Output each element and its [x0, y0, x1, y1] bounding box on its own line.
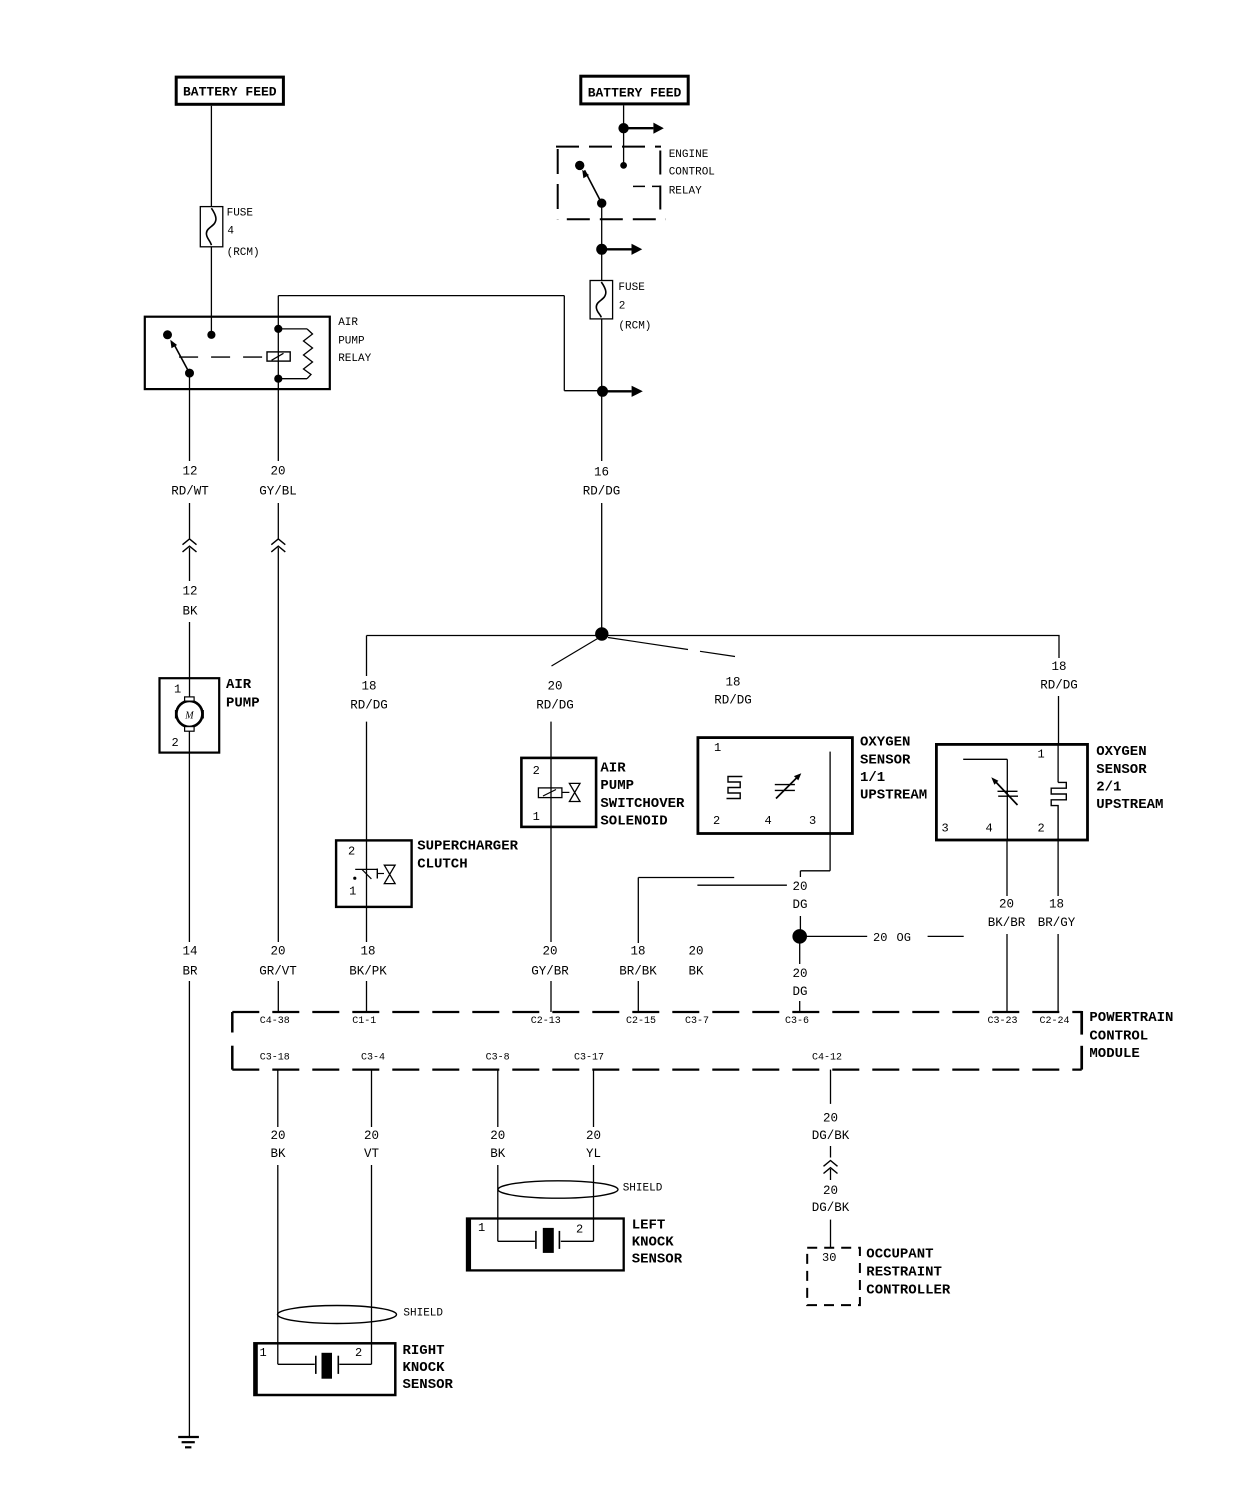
svg-text:RD/DG: RD/DG: [1040, 678, 1078, 692]
svg-text:2: 2: [172, 736, 179, 750]
svg-text:OCCUPANT: OCCUPANT: [866, 1247, 933, 1263]
svg-text:BK: BK: [490, 1147, 506, 1161]
svg-text:C3-23: C3-23: [987, 1016, 1017, 1027]
svg-text:1: 1: [174, 682, 181, 696]
svg-text:2: 2: [355, 1346, 362, 1360]
svg-text:SENSOR: SENSOR: [632, 1251, 683, 1267]
svg-text:20: 20: [823, 1184, 838, 1198]
svg-text:20: 20: [999, 897, 1014, 911]
svg-text:20: 20: [792, 880, 807, 894]
svg-text:20: 20: [270, 944, 285, 958]
svg-text:C3-18: C3-18: [260, 1053, 290, 1064]
svg-text:1: 1: [260, 1346, 267, 1360]
svg-text:SHIELD: SHIELD: [403, 1307, 443, 1319]
svg-text:C1-1: C1-1: [352, 1016, 376, 1027]
svg-text:18: 18: [361, 679, 376, 693]
svg-text:SOLENOID: SOLENOID: [600, 814, 667, 830]
svg-text:18: 18: [630, 944, 645, 958]
svg-text:20: 20: [270, 1129, 285, 1143]
svg-text:2: 2: [713, 814, 720, 828]
svg-text:14: 14: [182, 944, 197, 958]
svg-text:RELAY: RELAY: [338, 353, 371, 365]
svg-text:RD/DG: RD/DG: [350, 698, 388, 712]
svg-text:(RCM): (RCM): [227, 247, 260, 259]
svg-text:1: 1: [714, 741, 721, 755]
svg-text:BATTERY FEED: BATTERY FEED: [588, 85, 682, 100]
svg-text:12: 12: [182, 584, 197, 598]
svg-text:C4-12: C4-12: [812, 1053, 842, 1064]
svg-text:(RCM): (RCM): [618, 320, 651, 332]
svg-text:RELAY: RELAY: [669, 186, 702, 198]
svg-text:SHIELD: SHIELD: [623, 1183, 663, 1195]
svg-text:12: 12: [182, 464, 197, 478]
svg-text:RESTRAINT: RESTRAINT: [866, 1265, 942, 1281]
svg-text:18: 18: [725, 675, 740, 689]
svg-text:GY/BL: GY/BL: [259, 484, 297, 498]
svg-text:GY/BR: GY/BR: [531, 964, 569, 978]
svg-text:C3-17: C3-17: [574, 1053, 604, 1064]
svg-text:DG/BK: DG/BK: [812, 1201, 850, 1215]
svg-text:OXYGEN: OXYGEN: [860, 735, 910, 751]
svg-text:30: 30: [822, 1251, 836, 1265]
svg-text:BATTERY FEED: BATTERY FEED: [183, 85, 277, 100]
svg-text:DG: DG: [792, 898, 807, 912]
svg-text:20: 20: [270, 464, 285, 478]
svg-text:C3-8: C3-8: [486, 1053, 510, 1064]
svg-text:RD/DG: RD/DG: [714, 693, 752, 707]
svg-text:CONTROL: CONTROL: [1089, 1028, 1148, 1044]
svg-text:C3-7: C3-7: [685, 1016, 709, 1027]
svg-text:CONTROLLER: CONTROLLER: [866, 1283, 951, 1299]
svg-text:BR: BR: [182, 964, 198, 978]
svg-text:FUSE: FUSE: [618, 282, 645, 294]
svg-text:DG: DG: [792, 985, 807, 999]
svg-text:RD/WT: RD/WT: [171, 484, 209, 498]
svg-text:2: 2: [619, 300, 626, 312]
svg-text:BK: BK: [182, 604, 198, 618]
svg-text:AIR: AIR: [600, 760, 626, 776]
svg-text:C4-38: C4-38: [260, 1016, 290, 1027]
svg-text:OXYGEN: OXYGEN: [1096, 744, 1146, 760]
svg-text:POWERTRAIN: POWERTRAIN: [1089, 1010, 1173, 1026]
svg-text:2/1: 2/1: [1096, 780, 1121, 796]
svg-text:YL: YL: [586, 1147, 601, 1161]
svg-text:SENSOR: SENSOR: [1096, 762, 1147, 778]
svg-text:AIR: AIR: [226, 677, 252, 693]
svg-text:PUMP: PUMP: [338, 335, 365, 347]
svg-text:UPSTREAM: UPSTREAM: [860, 788, 927, 804]
svg-text:1: 1: [533, 810, 540, 824]
svg-text:4: 4: [986, 822, 993, 836]
svg-text:18: 18: [1051, 660, 1066, 674]
svg-text:KNOCK: KNOCK: [632, 1235, 675, 1251]
svg-text:C3-4: C3-4: [361, 1053, 385, 1064]
svg-text:2: 2: [1038, 822, 1045, 836]
svg-text:KNOCK: KNOCK: [403, 1360, 446, 1376]
svg-text:C2-13: C2-13: [531, 1016, 561, 1027]
svg-text:1: 1: [478, 1221, 485, 1235]
svg-text:20: 20: [586, 1129, 601, 1143]
svg-text:1: 1: [349, 885, 356, 899]
svg-text:2: 2: [348, 845, 355, 859]
svg-text:RD/DG: RD/DG: [536, 698, 574, 712]
svg-text:FUSE: FUSE: [227, 207, 254, 219]
svg-text:C2-24: C2-24: [1039, 1016, 1069, 1027]
svg-text:3: 3: [809, 814, 816, 828]
svg-text:2: 2: [576, 1223, 583, 1237]
svg-text:BK: BK: [270, 1147, 286, 1161]
svg-text:BK: BK: [688, 964, 704, 978]
svg-text:4: 4: [227, 226, 234, 238]
svg-text:BR/BK: BR/BK: [619, 964, 657, 978]
svg-text:18: 18: [360, 944, 375, 958]
svg-text:SENSOR: SENSOR: [860, 752, 911, 768]
svg-text:GR/VT: GR/VT: [259, 964, 297, 978]
svg-text:16: 16: [594, 465, 609, 479]
svg-text:OG: OG: [897, 931, 911, 945]
svg-text:1: 1: [1038, 747, 1045, 761]
svg-text:BR/GY: BR/GY: [1038, 916, 1076, 930]
svg-text:BK/PK: BK/PK: [349, 964, 387, 978]
svg-text:18: 18: [1049, 897, 1064, 911]
svg-text:UPSTREAM: UPSTREAM: [1096, 797, 1163, 813]
svg-text:MODULE: MODULE: [1089, 1046, 1139, 1062]
svg-text:PUMP: PUMP: [600, 778, 634, 794]
svg-text:PUMP: PUMP: [226, 696, 260, 712]
svg-text:RD/DG: RD/DG: [583, 484, 621, 498]
svg-text:SWITCHOVER: SWITCHOVER: [600, 796, 685, 812]
svg-text:2: 2: [533, 764, 540, 778]
svg-text:CONTROL: CONTROL: [669, 167, 715, 179]
svg-text:20: 20: [364, 1129, 379, 1143]
svg-text:20: 20: [490, 1129, 505, 1143]
svg-text:ENGINE: ENGINE: [669, 149, 709, 161]
svg-text:CLUTCH: CLUTCH: [417, 857, 467, 873]
svg-text:C2-15: C2-15: [626, 1016, 656, 1027]
svg-text:SUPERCHARGER: SUPERCHARGER: [417, 839, 518, 855]
svg-text:BK/BR: BK/BR: [988, 916, 1026, 930]
svg-text:20: 20: [873, 931, 887, 945]
svg-text:RIGHT: RIGHT: [403, 1343, 445, 1359]
svg-text:M: M: [184, 710, 194, 721]
svg-text:1/1: 1/1: [860, 770, 885, 786]
svg-text:20: 20: [547, 679, 562, 693]
svg-text:AIR: AIR: [338, 317, 358, 329]
svg-text:LEFT: LEFT: [632, 1218, 666, 1234]
svg-text:3: 3: [942, 822, 949, 836]
svg-text:20: 20: [823, 1111, 838, 1125]
svg-text:20: 20: [688, 944, 703, 958]
svg-text:20: 20: [792, 967, 807, 981]
svg-text:DG/BK: DG/BK: [812, 1129, 850, 1143]
svg-text:SENSOR: SENSOR: [403, 1377, 454, 1393]
svg-text:C3-6: C3-6: [785, 1016, 809, 1027]
svg-text:4: 4: [765, 814, 772, 828]
svg-text:VT: VT: [364, 1147, 380, 1161]
svg-text:20: 20: [542, 944, 557, 958]
